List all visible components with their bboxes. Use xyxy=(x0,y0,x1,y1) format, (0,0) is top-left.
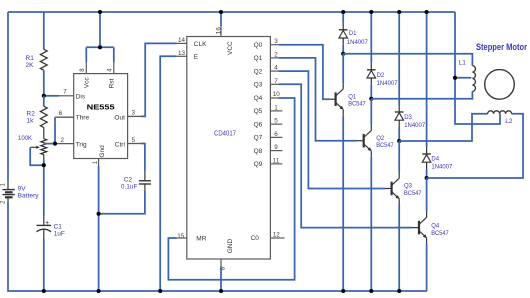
wire: Q2 collector xyxy=(370,99,372,125)
wire: L1 center-tap to rail xyxy=(455,77,471,79)
motor M1 body xyxy=(485,70,515,100)
svg-text:15: 15 xyxy=(177,233,185,240)
label 555 pin number 2 xyxy=(61,137,65,144)
wire: 555 Thre pin 6 xyxy=(55,116,74,118)
junction rail/D1 xyxy=(341,10,345,14)
wire: Q3 emitter to ground rail xyxy=(398,205,400,292)
label 555 pin number 8 xyxy=(80,68,86,72)
svg-text:5: 5 xyxy=(132,137,136,144)
diode D2 1N4007 xyxy=(367,63,376,85)
label D3 xyxy=(404,115,426,129)
svg-text:Q0: Q0 xyxy=(254,42,263,49)
svg-text:12: 12 xyxy=(273,231,281,238)
wire: 4017 Q0 pin3 to Q1 base xyxy=(270,45,335,99)
label 4017 pin number 16 xyxy=(215,27,222,35)
wires: 4017 unused output stubs Q5-Q9 xyxy=(270,111,282,164)
svg-text:Q5: Q5 xyxy=(254,108,263,115)
wire: pot bottom to C1 xyxy=(43,155,45,216)
svg-text:Gnd: Gnd xyxy=(99,145,106,158)
transistor Q2 BC547 xyxy=(364,125,372,157)
svg-text:VCC: VCC xyxy=(227,41,234,55)
diode D3 1N4007 xyxy=(395,105,404,127)
wire: 4017 Q3 pin7 to Q4 base xyxy=(270,84,419,227)
svg-text:CD4017: CD4017 xyxy=(214,131,236,138)
label: 9V Battery xyxy=(18,185,40,199)
junction 4017 GND rail xyxy=(219,289,223,293)
svg-text:Q7: Q7 xyxy=(254,135,263,142)
svg-text:1N4007: 1N4007 xyxy=(431,165,453,171)
label NE555 xyxy=(87,102,115,111)
label R1 2K xyxy=(26,55,35,69)
label CD4017 xyxy=(214,131,236,138)
label 4017 pin number 15 xyxy=(177,233,185,240)
svg-text:CLK: CLK xyxy=(194,41,207,48)
svg-text:Battery: Battery xyxy=(18,192,40,199)
svg-text:BC547: BC547 xyxy=(431,231,449,237)
wire: 4017 Q1 pin2 to Q2 base xyxy=(270,58,363,141)
label 4017 pin C0 xyxy=(251,235,260,242)
svg-text:3: 3 xyxy=(132,110,136,117)
label 100K xyxy=(18,135,33,142)
label Q1 xyxy=(348,94,366,107)
resistor R1 xyxy=(40,49,47,70)
wire: Q4 emitter to ground rail xyxy=(426,244,428,291)
label 4017 pin VCC xyxy=(227,41,234,55)
label C2 0.1uF xyxy=(121,177,138,191)
svg-text:Q2: Q2 xyxy=(254,68,263,75)
label: battery pin 2 xyxy=(1,200,7,204)
junction Gnd rail xyxy=(97,289,101,293)
svg-text:D4: D4 xyxy=(431,157,439,163)
label 4017 pin number 12 xyxy=(273,231,281,238)
label 555 pin Out xyxy=(114,115,125,122)
wire: D2 to collector node xyxy=(370,85,372,99)
pot wiper arrow xyxy=(30,146,40,149)
svg-text:C1: C1 xyxy=(54,224,63,231)
svg-text:Trig: Trig xyxy=(76,141,87,148)
label C1 plus xyxy=(45,220,49,227)
junction Q1 emitter ground xyxy=(341,289,345,293)
junction L1 center tap xyxy=(453,76,457,80)
svg-text:L1: L1 xyxy=(459,60,467,67)
wire: 4017 Q4 pin10 to MR pin15 reset loop xyxy=(168,98,294,280)
svg-text:BC547: BC547 xyxy=(404,191,422,197)
IC U2 CD4017 body xyxy=(187,37,271,260)
diode D4 1N4007 xyxy=(422,147,431,169)
junction node A xyxy=(42,94,46,98)
svg-text:1N4007: 1N4007 xyxy=(404,123,426,129)
label 4017 pin CLK xyxy=(194,41,207,48)
svg-text:D1: D1 xyxy=(349,31,357,37)
wire: Q2 emitter to ground rail xyxy=(370,157,372,291)
wire: D4 to collector node xyxy=(426,169,428,178)
wire: rail to 555 Vcc/Rst bridge xyxy=(86,12,114,74)
label 4017 pin MR xyxy=(196,236,206,243)
junction collector node D1 xyxy=(341,52,345,56)
label 555 pin number 1 xyxy=(93,160,99,164)
label 555 pin number 7 xyxy=(63,89,67,96)
wire: R1 to node A xyxy=(43,70,45,96)
svg-text:Q8: Q8 xyxy=(254,148,263,155)
potentiometer RV1 100K xyxy=(41,139,47,155)
wire: Q4 collector xyxy=(426,178,428,212)
svg-text:L2: L2 xyxy=(505,118,513,125)
junction Vcc-Rst bridge xyxy=(98,45,102,49)
svg-text:10: 10 xyxy=(273,91,281,98)
labels 4017 pins Q0-Q9 xyxy=(254,42,263,168)
svg-text:Q6: Q6 xyxy=(254,121,263,128)
wire: +9V top rail xyxy=(8,11,455,13)
wire: Q4 collector node to L2 right xyxy=(427,114,523,178)
label D1 xyxy=(347,31,369,46)
wire: battery - to ground rail and bottom ground rail xyxy=(8,203,427,292)
svg-text:Vcc: Vcc xyxy=(84,77,91,89)
svg-text:6: 6 xyxy=(59,110,63,117)
wire: 555 Gnd pin1 to ground rail xyxy=(98,159,100,292)
capacitor C1 1uF (polarized) xyxy=(37,216,52,239)
junction pot bottom xyxy=(42,163,46,167)
label C1 1uF xyxy=(54,224,65,238)
svg-text:Stepper Motor: Stepper Motor xyxy=(476,42,527,53)
wire: D3 to collector node xyxy=(398,127,400,141)
svg-text:Q3: Q3 xyxy=(404,184,413,190)
junction rail/555 feed xyxy=(98,10,102,14)
wire: rail to R1 xyxy=(43,12,45,49)
wire: 4017 C0 pin12 stub xyxy=(270,237,284,239)
wire: 4017 GND pin8 to ground rail xyxy=(220,259,222,291)
label 555 pin Vcc xyxy=(84,77,91,89)
wire: Q2 collector node to L1 bottom xyxy=(371,91,472,98)
wire: C1 to ground rail xyxy=(43,239,45,292)
wire: 4017 E pin13 to ground xyxy=(160,56,187,291)
label 555 pin Rst xyxy=(108,78,115,88)
svg-text:C2: C2 xyxy=(124,177,133,184)
resistor R2 xyxy=(40,106,47,127)
svg-text:MR: MR xyxy=(196,236,206,243)
svg-text:Q4: Q4 xyxy=(431,224,440,230)
wire: +9V rail drop to motor center taps xyxy=(455,12,500,124)
wire: C2 to 555 Gnd wire xyxy=(99,191,145,214)
svg-text:D3: D3 xyxy=(404,115,412,121)
wire: 555 Trig pin 2 from pot top xyxy=(44,143,74,145)
label 555 pin Trig xyxy=(76,141,87,148)
svg-text:Out: Out xyxy=(114,115,125,122)
wire: node A to R2 xyxy=(43,96,45,106)
svg-text:100K: 100K xyxy=(18,135,33,142)
svg-text:1uF: 1uF xyxy=(54,231,65,238)
svg-text:E: E xyxy=(194,54,199,61)
label 555 pin Thre xyxy=(76,115,90,122)
label 555 pin Gnd xyxy=(99,145,106,158)
label Stepper Motor xyxy=(476,42,527,53)
label Q2 xyxy=(376,136,394,149)
junction rail/D4 xyxy=(425,10,429,14)
diode D1 1N4007 xyxy=(339,23,348,45)
junction Trig/Thre xyxy=(53,142,57,146)
svg-text:2: 2 xyxy=(61,137,65,144)
wire: rail to D3 xyxy=(398,12,400,105)
junction rail/D3 xyxy=(397,10,401,14)
svg-text:Q1: Q1 xyxy=(254,55,263,62)
junction C1 ground xyxy=(42,289,46,293)
svg-text:1N4007: 1N4007 xyxy=(347,40,369,46)
svg-text:0.1uF: 0.1uF xyxy=(121,184,138,191)
svg-text:7: 7 xyxy=(63,89,67,96)
wire: Q3 collector node to L2 left xyxy=(399,114,487,141)
svg-text:14: 14 xyxy=(178,37,186,44)
label 555 pin number 4 xyxy=(108,68,114,72)
svg-text:Dis: Dis xyxy=(76,93,86,100)
svg-text:GND: GND xyxy=(227,239,234,254)
label D4 xyxy=(431,157,453,171)
svg-text:9V: 9V xyxy=(18,185,27,192)
IC U1 NE555 body xyxy=(74,74,128,159)
wire: Q1 collector xyxy=(342,54,344,83)
label L1 xyxy=(459,60,467,67)
wire: rail to D1 xyxy=(342,12,344,23)
junction Q3 emitter ground xyxy=(397,289,401,293)
label 4017 pin E xyxy=(194,54,199,61)
label 555 pin Ctrl xyxy=(115,141,126,148)
junction rail/4017 VCC xyxy=(219,10,223,14)
label 4017 pin number 13 xyxy=(178,50,186,57)
wire: rail to D2 xyxy=(370,12,372,63)
label 4017 pin GND xyxy=(227,239,234,254)
wire: D1 to collector node xyxy=(342,45,344,54)
svg-text:Thre: Thre xyxy=(76,115,90,122)
wire: rail to D4 xyxy=(426,12,428,147)
wire: R2 to pot xyxy=(43,128,45,139)
wire: wiper strap to pot bottom xyxy=(30,148,44,166)
capacitor C2 0.1uF xyxy=(139,171,151,192)
svg-text:+: + xyxy=(45,220,49,227)
label 555 pin Dis xyxy=(76,93,86,100)
label 555 pin number 6 xyxy=(59,110,63,117)
junction rail/D2 xyxy=(369,10,373,14)
svg-text:1N4007: 1N4007 xyxy=(377,81,399,87)
junction C2/Gnd xyxy=(97,212,101,216)
junction collector node D4 xyxy=(425,176,429,180)
junction collector node D3 xyxy=(397,139,401,143)
label 555 pin number 5 xyxy=(132,137,136,144)
label 555 pin number 3 xyxy=(132,110,136,117)
wire: Q1 collector node to L1 top xyxy=(343,54,472,66)
svg-text:Ctrl: Ctrl xyxy=(115,141,126,148)
wire: Q3 collector xyxy=(398,141,400,173)
svg-text:1k: 1k xyxy=(27,117,35,124)
svg-text:BC547: BC547 xyxy=(348,102,366,108)
svg-text:Q9: Q9 xyxy=(254,161,263,168)
svg-text:C0: C0 xyxy=(251,235,260,242)
svg-text:NE555: NE555 xyxy=(87,102,115,111)
wire: node A to 555 Dis pin 7 xyxy=(44,95,74,97)
labels 4017 right pin numbers xyxy=(273,38,281,164)
label D2 xyxy=(377,73,399,87)
inductor L2 (motor winding B) xyxy=(488,111,512,114)
wire: Thre to Trig tie xyxy=(54,117,56,143)
inductor L1 (motor winding A) xyxy=(472,66,475,92)
svg-text:BC547: BC547 xyxy=(376,143,394,149)
svg-text:D2: D2 xyxy=(377,73,385,79)
wire: 555 Out pin3 to CD4017 CLK pin14 xyxy=(128,43,187,116)
junction collector node D2 xyxy=(369,97,373,101)
wire: left rail (battery +) xyxy=(7,12,9,180)
transistor Q3 BC547 xyxy=(392,173,400,205)
wire: Q1 emitter to ground rail xyxy=(342,115,344,291)
svg-text:Q2: Q2 xyxy=(376,136,385,142)
label 4017 pin number 8 xyxy=(220,266,227,270)
wire: rail to 4017 VCC pin16 xyxy=(220,12,222,37)
label Q4 xyxy=(431,224,449,237)
label 4017 pin number 14 xyxy=(178,37,186,44)
wire: 4017 Q2 pin4 to Q3 base xyxy=(270,71,391,188)
svg-text:Q3: Q3 xyxy=(254,82,263,89)
svg-text:Q1: Q1 xyxy=(348,94,357,100)
svg-text:2K: 2K xyxy=(26,62,35,69)
label L2 xyxy=(505,118,513,125)
label Q3 xyxy=(404,184,422,197)
svg-text:Q4: Q4 xyxy=(254,95,263,102)
wire: 555 Ctrl pin5 to C2 xyxy=(128,144,145,171)
svg-text:Rst: Rst xyxy=(108,78,115,88)
label: battery pin 1 xyxy=(1,182,7,186)
transistor Q1 BC547 xyxy=(336,83,344,115)
junction Q2 emitter ground xyxy=(369,289,373,293)
label R2 1k xyxy=(27,111,36,125)
transistor Q4 BC547 xyxy=(419,212,427,244)
junction E ground xyxy=(158,289,162,293)
battery BT1 9V xyxy=(3,180,15,202)
